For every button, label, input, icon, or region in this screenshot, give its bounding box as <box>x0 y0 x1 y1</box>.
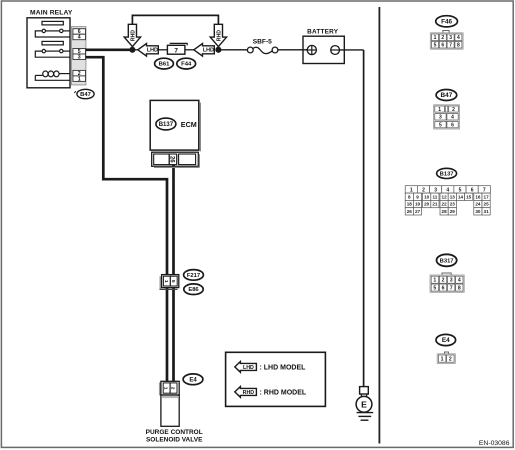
svg-text:10: 10 <box>424 194 430 199</box>
svg-text:LHD: LHD <box>203 48 214 54</box>
svg-text:1: 1 <box>163 387 169 390</box>
svg-text:17: 17 <box>484 194 490 199</box>
svg-text:8: 8 <box>457 43 460 49</box>
svg-text:6: 6 <box>451 122 454 128</box>
svg-text:2: 2 <box>170 387 176 390</box>
svg-text:15: 15 <box>466 194 472 199</box>
svg-text:14: 14 <box>458 194 464 199</box>
svg-text:F46: F46 <box>441 19 452 26</box>
svg-text:19: 19 <box>415 202 421 207</box>
svg-text:9: 9 <box>416 194 419 199</box>
svg-text:: LHD MODEL: : LHD MODEL <box>260 365 307 372</box>
svg-text:SOLENOID VALVE: SOLENOID VALVE <box>146 437 203 444</box>
svg-text:4: 4 <box>78 35 81 41</box>
svg-text:3: 3 <box>449 35 452 41</box>
svg-text:B137: B137 <box>159 122 174 128</box>
svg-text:F44: F44 <box>181 62 192 68</box>
svg-text:3: 3 <box>450 278 453 284</box>
svg-text:5: 5 <box>439 122 442 128</box>
svg-text:B47: B47 <box>80 92 91 98</box>
svg-text:1: 1 <box>441 356 444 362</box>
svg-text:E4: E4 <box>189 377 197 383</box>
svg-text:16: 16 <box>475 194 481 199</box>
svg-text:E4: E4 <box>442 337 450 344</box>
svg-text:E86: E86 <box>188 287 199 293</box>
svg-text:4: 4 <box>451 115 454 121</box>
svg-text:4: 4 <box>458 278 461 284</box>
svg-text:6: 6 <box>471 187 474 193</box>
svg-text:E: E <box>361 399 367 409</box>
svg-text:SBF-5: SBF-5 <box>253 39 272 46</box>
svg-text:7: 7 <box>450 285 453 291</box>
svg-text:23: 23 <box>450 202 456 207</box>
svg-text:6: 6 <box>441 43 444 49</box>
svg-text:4: 4 <box>446 187 449 193</box>
svg-text:MAIN RELAY: MAIN RELAY <box>30 9 73 16</box>
svg-text:B47: B47 <box>441 92 453 99</box>
svg-text:PURGE CONTROL: PURGE CONTROL <box>146 429 203 436</box>
svg-text:12: 12 <box>442 194 448 199</box>
svg-text:LHD: LHD <box>147 48 158 54</box>
svg-text:30: 30 <box>475 209 481 214</box>
svg-text:7: 7 <box>174 47 178 54</box>
svg-text:27: 27 <box>415 209 421 214</box>
svg-text:RHD: RHD <box>130 30 136 41</box>
svg-text:18: 18 <box>407 202 413 207</box>
svg-text:2: 2 <box>449 356 452 362</box>
svg-text:31: 31 <box>484 209 490 214</box>
svg-text:2: 2 <box>452 107 455 113</box>
svg-text:2: 2 <box>422 187 425 193</box>
svg-text:B61: B61 <box>159 62 171 68</box>
svg-text:5: 5 <box>434 43 437 49</box>
svg-text:1: 1 <box>433 278 436 284</box>
svg-text:1: 1 <box>434 35 437 41</box>
svg-text:3: 3 <box>434 187 437 193</box>
svg-text:25: 25 <box>484 202 490 207</box>
svg-text:26: 26 <box>407 209 413 214</box>
svg-text:5: 5 <box>433 285 436 291</box>
svg-text:29: 29 <box>450 209 456 214</box>
svg-text:5: 5 <box>170 280 176 283</box>
svg-text:13: 13 <box>450 194 456 199</box>
svg-text:8: 8 <box>408 194 411 199</box>
svg-text:26: 26 <box>168 156 174 163</box>
svg-text:BATTERY: BATTERY <box>307 28 339 35</box>
svg-text:4: 4 <box>457 35 460 41</box>
svg-text:6: 6 <box>442 285 445 291</box>
svg-text:11: 11 <box>432 194 437 199</box>
svg-text:ECM: ECM <box>181 120 197 129</box>
svg-text:1: 1 <box>438 107 441 113</box>
svg-text:21: 21 <box>432 202 438 207</box>
svg-text:7: 7 <box>449 43 452 49</box>
svg-text:: RHD MODEL: : RHD MODEL <box>260 390 307 397</box>
svg-text:5: 5 <box>459 187 462 193</box>
svg-text:2: 2 <box>442 278 445 284</box>
svg-text:20: 20 <box>424 202 430 207</box>
svg-text:3: 3 <box>78 55 81 61</box>
svg-text:LHD: LHD <box>243 365 254 371</box>
svg-text:7: 7 <box>483 187 486 193</box>
svg-text:24: 24 <box>475 202 481 207</box>
svg-text:1: 1 <box>78 76 81 82</box>
svg-text:EN-03086: EN-03086 <box>479 440 510 447</box>
svg-text:8: 8 <box>458 285 461 291</box>
svg-text:B137: B137 <box>440 171 454 177</box>
svg-text:F217: F217 <box>187 273 200 279</box>
svg-text:22: 22 <box>442 202 448 207</box>
svg-text:3: 3 <box>439 115 442 121</box>
svg-text:RHD: RHD <box>216 30 222 41</box>
svg-text:1: 1 <box>410 187 413 193</box>
svg-text:2: 2 <box>441 35 444 41</box>
svg-text:B317: B317 <box>440 258 454 264</box>
svg-text:RHD: RHD <box>243 390 255 396</box>
svg-text:1: 1 <box>163 280 169 283</box>
svg-text:28: 28 <box>442 209 448 214</box>
